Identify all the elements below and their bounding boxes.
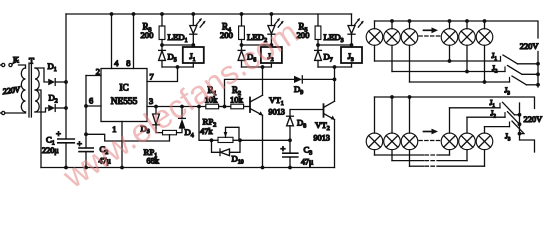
lamp top string 5 [459,29,476,46]
wire [391,97,393,133]
wire timing node to RP1 wiper [86,134,170,141]
pin 1 [121,122,123,168]
svg-text:47μ: 47μ [301,158,313,167]
svg-text:200: 200 [220,30,233,40]
wire secondary center tap to ground [35,90,41,168]
resistor R2 10k [231,104,244,109]
wire [0,112,2,114]
pin 3 output wire [147,106,206,108]
svg-text:+: + [281,143,286,153]
node ground/C1 [64,166,68,170]
pin 2 [86,75,101,77]
wire bottom string contact bus [520,103,535,152]
wire RP2 right to D8/C3 node [240,139,290,141]
svg-text:220μ: 220μ [42,146,59,155]
potentiometer RP1 68k [163,130,177,134]
dashed continuation arrow bottom string [419,140,440,142]
wire bottom group 2 bus [391,150,393,161]
LED3 [351,14,353,26]
wire V+ top rail [66,13,352,15]
relay coil J3 [351,45,353,47]
wire [374,97,376,133]
relay contact J2 top string [504,67,506,72]
svg-text:6: 6 [89,97,93,106]
wire [449,21,451,29]
node: D2 cathode junction [64,106,68,110]
wire top string supply bus [375,21,539,38]
pin 8 [133,14,135,69]
node RP2 right [238,138,242,142]
node D8/C3/RC [288,138,292,142]
wire bottom string supply bus [375,97,535,109]
lamp bottom string 3 [401,133,418,150]
wire R2 to VT1 base [244,106,250,108]
svg-text:9013: 9013 [314,134,330,143]
wire secondary bottom to D2 [35,108,48,112]
relay contact J3 top string [509,78,511,83]
svg-text:47k: 47k [200,127,213,136]
capacitor C1 220u [58,138,75,140]
diode D3 [154,105,158,109]
transistor VT2 9013 [323,104,325,117]
wire lamp group 3 bus [409,45,411,82]
diode D10 [212,140,220,152]
svg-text:10k: 10k [230,94,244,104]
wire lamp 4 to contact J1 bottom string [449,108,451,133]
svg-text:68k: 68k [147,157,160,166]
dashed continuation arrow top string [419,35,440,37]
transformer core [28,63,30,117]
lamp bottom string 4 [441,133,458,150]
wire [537,52,539,88]
lamp top string 4 [441,29,458,46]
pin 4 [111,14,113,69]
diode D8 [289,126,291,140]
svg-text:220V: 220V [520,42,539,51]
node RP2 left [210,138,214,142]
mains terminal upper [2,63,5,66]
wire channel 3 bottom [318,66,352,68]
wire lamp 5 to contact J2 bottom string [466,117,468,133]
LED1 [191,12,195,16]
relay contact J3 bottom string [509,122,511,127]
wire [466,21,468,29]
node: D1 cathode junction [64,80,68,84]
resistor R4 200 [240,12,244,16]
wire bottom group 1 bus [374,150,376,155]
wire [484,21,486,29]
svg-text:IC: IC [119,84,128,94]
wire pin2/pin6 tie [85,76,87,149]
relay contact J1 top string [500,57,502,62]
lamp bottom string 6 [476,133,493,150]
node channel 2 top [242,44,272,46]
capacitor C3 47u [289,140,291,153]
node R1/R2 [223,105,227,109]
wire V+ left bus [65,14,67,139]
transistor VT1 9013 [249,98,251,113]
capacitor C2 47u [79,147,93,149]
svg-text:200: 200 [141,30,154,40]
diode D4 [180,105,184,109]
svg-text:2: 2 [96,67,100,76]
svg-text:220V: 220V [524,115,543,124]
wire [219,106,231,108]
wire ground rail [41,167,335,169]
pin 6 [86,105,101,107]
diode D7 flyback [317,45,319,50]
resistor R3 200 [160,12,164,16]
wire channel 1 bottom [162,66,193,68]
diode D6 flyback [241,45,243,50]
lamp bottom string 2 [384,133,401,150]
potentiometer RP2 47k (rheostat) [212,139,219,141]
wire pin3 branch down to RP2 [197,105,201,109]
relay contact J1 bottom string [499,103,501,108]
diode D2 [48,105,55,112]
LED2 [270,12,274,16]
lamp top string 2 [384,29,401,46]
resistor R5 200 [317,14,319,26]
wire [391,21,393,29]
wire lamp 6 to contact J3 bottom string [484,127,486,134]
lamp top string 6 [476,29,493,46]
node channel 1 top [162,44,193,46]
relay contact J2 bottom string [504,113,506,118]
wire secondary top to D1 [35,68,48,82]
svg-text:K: K [13,56,19,65]
svg-text:9013: 9013 [269,108,285,117]
lamp top string 1 [366,29,383,46]
lamp bottom string 5 [459,133,476,150]
pin 7 wire to J1 node [147,67,178,82]
relay coil J2 [270,45,272,47]
resistor R1 10k [206,104,219,109]
node D9 cathode / VT2 collector [333,78,337,82]
lamp top string 3 [401,29,418,46]
wire lamp group 1 bus [374,45,376,61]
wire lamp group 2 bus [391,45,393,71]
wire [409,21,411,29]
lamp bottom string 1 [366,133,383,150]
diode D5 flyback [161,45,163,50]
svg-text:NE555: NE555 [111,97,138,107]
diode D9 [225,79,295,106]
op-amp U1: IC NE555 [101,69,147,122]
svg-text:7: 7 [150,73,154,82]
node timing [84,132,88,136]
svg-text:8: 8 [126,59,130,68]
node channel 3 top [318,44,352,46]
wire channel 2 bottom [242,66,272,68]
wire [409,97,411,133]
wire [0,64,2,66]
wire [374,21,376,29]
diode D1 [48,79,55,86]
mains terminal lower [2,111,5,114]
relay coil J1 [192,45,194,47]
wire [19,65,26,68]
wire bottom group 3 bus [409,150,411,167]
switch K [9,63,12,66]
svg-text:+: + [56,128,61,138]
